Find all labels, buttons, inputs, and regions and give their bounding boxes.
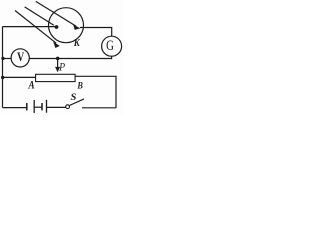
- svg-text:P: P: [58, 61, 65, 74]
- svg-text:B: B: [77, 82, 83, 92]
- svg-text:G: G: [106, 38, 114, 54]
- svg-text:A: A: [28, 77, 35, 91]
- svg-text:S: S: [71, 92, 77, 103]
- svg-text:V: V: [17, 50, 24, 64]
- svg-text:K: K: [73, 37, 80, 49]
